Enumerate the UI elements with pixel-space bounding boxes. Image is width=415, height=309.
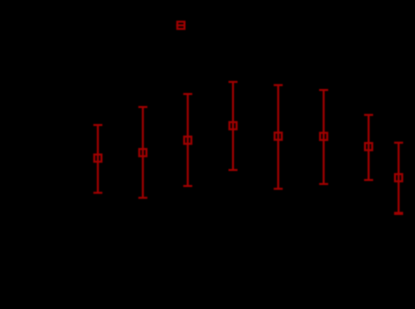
error bar A vertical line <box>97 125 99 193</box>
error bar E top cap <box>274 84 283 86</box>
data point E square marker <box>275 133 282 140</box>
error bar E vertical line <box>277 85 279 189</box>
data point D square marker <box>229 122 236 129</box>
error bar B bottom cap <box>138 197 147 199</box>
error bar C vertical line <box>187 94 189 186</box>
legend sample line <box>176 24 185 26</box>
error bar D top cap <box>229 81 238 83</box>
error bar B top cap <box>138 106 147 108</box>
error bar F top cap <box>319 89 328 91</box>
data point A square marker <box>94 155 101 162</box>
error bar G top cap <box>364 114 373 116</box>
error bar H vertical line <box>398 143 400 214</box>
error bar E bottom cap <box>274 188 283 190</box>
legend sample square marker <box>177 22 184 29</box>
error bar A bottom cap <box>93 192 102 194</box>
error bar C bottom cap <box>183 185 192 187</box>
data point F square marker <box>320 133 327 140</box>
data point C square marker <box>184 137 191 144</box>
error bar F vertical line <box>323 90 325 184</box>
error bar D vertical line <box>232 82 234 170</box>
error bar F bottom cap <box>319 183 328 185</box>
error bar C top cap <box>183 93 192 95</box>
error bar G vertical line <box>368 115 370 180</box>
error bar A top cap <box>93 124 102 126</box>
error bar H bottom cap <box>394 212 403 215</box>
error bar D bottom cap <box>229 169 238 171</box>
error bar B vertical line <box>142 107 144 198</box>
data point B square marker <box>139 149 146 156</box>
data point H square marker <box>395 174 402 181</box>
error bar G bottom cap <box>364 179 373 181</box>
error bar H top cap <box>394 142 403 144</box>
data point G square marker <box>365 143 372 150</box>
